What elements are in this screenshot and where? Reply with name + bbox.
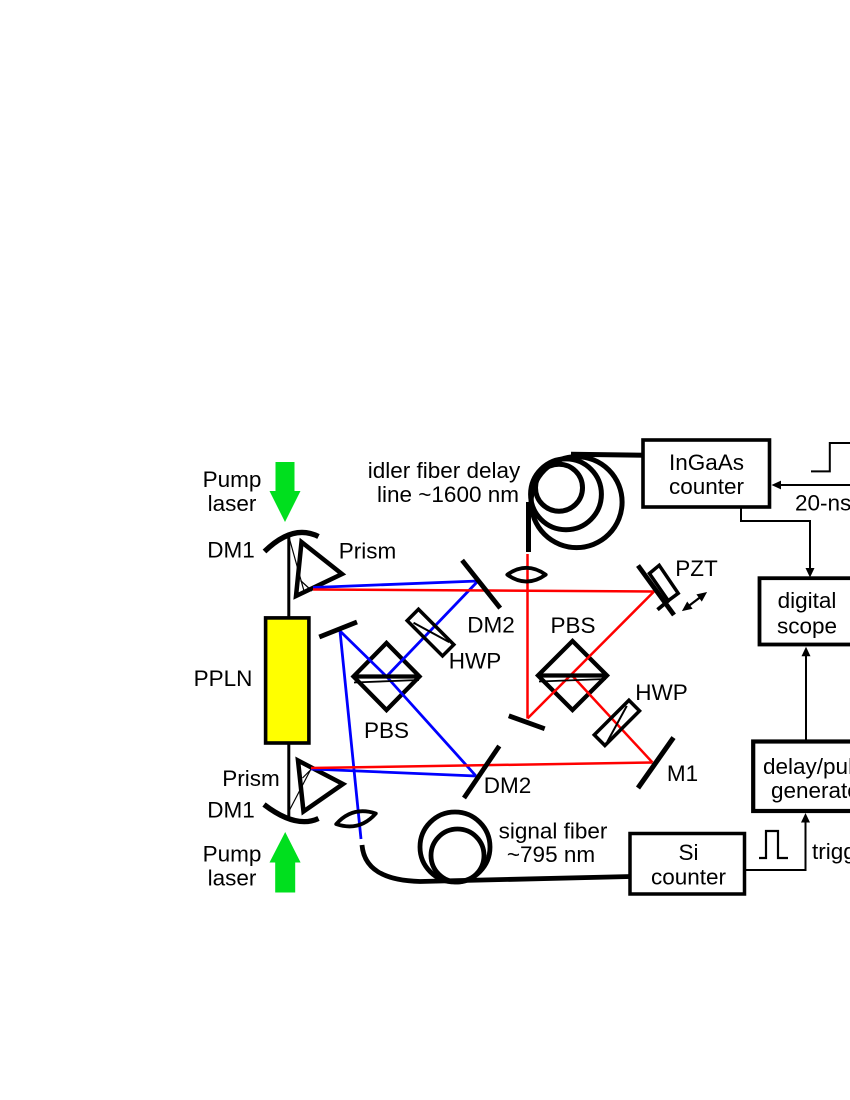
collimating lens (signal, bottom) (334, 807, 377, 831)
svg-text:counter: counter (669, 474, 745, 499)
svg-text:PPLN: PPLN (194, 666, 253, 691)
signal fiber label (499, 819, 608, 868)
svg-text:line ~1600 nm: line ~1600 nm (377, 482, 519, 507)
wire delay generator to digital scope (802, 647, 811, 742)
pump laser label (top) (203, 467, 262, 516)
idler fiber lead to InGaAs counter (571, 454, 646, 455)
wire InGaAs counter to digital scope (741, 508, 815, 578)
delay/pulse generator box (753, 742, 850, 812)
blue signal beam: fold mirror down to fiber lens (340, 631, 361, 839)
svg-text:DM2: DM2 (484, 773, 532, 798)
svg-text:DM1: DM1 (207, 538, 255, 563)
svg-text:InGaAs: InGaAs (669, 450, 744, 475)
red idler beam: bottom prism to M1 (311, 763, 653, 769)
PPLN crystal (266, 618, 309, 743)
DM1 curved mirror (bottom) (264, 805, 319, 822)
svg-text:Si: Si (678, 840, 698, 865)
fold mirror (bottom center) (509, 716, 545, 729)
svg-text:DM2: DM2 (467, 613, 515, 638)
digital scope label (777, 588, 837, 639)
PBS interface line (left) (354, 677, 420, 683)
svg-text:laser: laser (208, 866, 257, 891)
prism (top) (296, 542, 342, 596)
svg-text:HWP: HWP (449, 649, 502, 674)
HWP plate (right) (594, 700, 639, 745)
trigger pulse waveform (759, 831, 788, 858)
svg-text:laser: laser (208, 491, 257, 516)
signal fiber from lens to coil to Si counter (362, 845, 631, 882)
svg-text:Prism: Prism (339, 539, 397, 564)
svg-text:PBS: PBS (364, 718, 409, 743)
HWP plate (left) (407, 609, 454, 656)
svg-text:Pump: Pump (203, 467, 262, 492)
blue signal beam: DM2 top to PBS left (387, 581, 479, 677)
PBS interface line (right) (538, 676, 607, 682)
pump beam green arrow (top, pointing down) (270, 462, 301, 522)
PBS cube (left) (354, 643, 420, 710)
pump refraction path in top prism (290, 539, 313, 591)
DM2 dichroic mirror (top) (462, 560, 500, 608)
svg-text:HWP: HWP (635, 680, 688, 705)
idler fiber coil (531, 457, 623, 548)
pump line DM1top to PPLN (287, 537, 290, 620)
pump refraction path in bottom prism (288, 770, 311, 814)
pump laser label (bottom) (203, 842, 262, 891)
collimating lens (idler, top) (507, 568, 545, 582)
Si counter box (630, 834, 745, 895)
idler fiber delay label (368, 458, 521, 507)
svg-text:Prism: Prism (222, 766, 280, 791)
delay/pulse generator label (763, 754, 850, 803)
svg-text:~795 nm: ~795 nm (507, 842, 595, 867)
gate step waveform (811, 443, 850, 471)
M1 mirror (638, 738, 674, 788)
blue signal beam: prism to DM2 top (313, 581, 478, 588)
signal fiber coil (420, 812, 490, 882)
wire Si counter to delay generator (746, 813, 810, 870)
DM2 dichroic mirror (bottom) (464, 746, 499, 798)
blue signal beam: PBS left to DM2 bottom (387, 677, 477, 777)
red idler beam: PZT through PBS right to fold mirror (528, 592, 655, 719)
svg-text:digital: digital (778, 588, 837, 613)
red idler beam: PBS right through HWP to M1 (573, 676, 653, 763)
red idler beam: top prism to PZT (313, 590, 654, 592)
pump beam green arrow (bottom, pointing up) (270, 832, 301, 893)
PZT foot (658, 600, 669, 609)
svg-text:PBS: PBS (550, 613, 595, 638)
Si counter label (651, 840, 727, 890)
svg-text:PZT: PZT (675, 556, 718, 581)
pump line PPLN to DM1bottom (287, 741, 290, 820)
blue signal beam: bottom prism to DM2 bottom (311, 769, 476, 776)
PBS cube (right) (538, 641, 607, 710)
red idler beam: fiber lens down to fold mirror (526, 554, 529, 719)
svg-text:scope: scope (777, 614, 837, 639)
svg-text:counter: counter (651, 865, 727, 890)
svg-text:generator: generator (771, 778, 850, 803)
svg-text:20-ns gate: 20-ns gate (795, 491, 850, 516)
digital scope box (760, 578, 850, 644)
svg-text:Pump: Pump (203, 842, 262, 867)
fold mirror (left, near PPLN) (319, 622, 357, 637)
PZT mirror face (638, 566, 674, 616)
svg-text:idler fiber delay: idler fiber delay (368, 458, 521, 483)
PZT motion double arrow (682, 592, 707, 611)
svg-text:delay/pulse: delay/pulse (763, 754, 850, 779)
PZT actuator body (649, 565, 678, 600)
idler fiber lead down to lens (526, 502, 531, 552)
InGaAs counter box (643, 440, 770, 507)
svg-text:signal fiber: signal fiber (499, 819, 608, 844)
svg-text:M1: M1 (667, 761, 698, 786)
svg-text:trigger: trigger (812, 839, 850, 864)
InGaAs counter label (669, 450, 745, 499)
svg-text:DM1: DM1 (207, 798, 255, 823)
blue signal beam: PBS left to fold mirror (340, 631, 387, 677)
prism (bottom) (298, 761, 343, 812)
arrow from right into InGaAs counter (772, 481, 850, 490)
DM1 curved mirror (top) (265, 532, 319, 551)
